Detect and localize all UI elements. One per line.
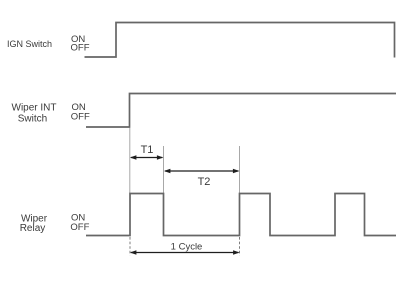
label IGN Switch — [7, 39, 52, 49]
dimension arrow T2 — [164, 169, 240, 174]
svg-text:IGN Switch: IGN Switch — [7, 39, 52, 49]
dimension arrow T1 — [130, 155, 164, 160]
svg-text:T1: T1 — [141, 144, 154, 156]
label T1 — [141, 144, 154, 156]
label Relay — [20, 223, 46, 234]
node guide line at pulse1 fall — [163, 146, 165, 193]
node dashed extension at cycle end — [239, 237, 241, 256]
wire Wiper INT switch waveform — [86, 94, 396, 128]
label 1 Cycle — [171, 242, 203, 253]
label Wiper INT — [12, 103, 57, 114]
svg-text:OFF: OFF — [70, 222, 89, 233]
svg-text:1 Cycle: 1 Cycle — [171, 242, 203, 253]
label OFF (INT) — [71, 111, 90, 122]
label ON (Relay) — [71, 213, 85, 224]
wire Wiper Relay waveform — [86, 194, 396, 236]
svg-text:Switch: Switch — [18, 114, 47, 125]
svg-text:T2: T2 — [198, 176, 211, 188]
wire IGN switch waveform — [85, 23, 395, 58]
svg-text:Wiper INT: Wiper INT — [12, 103, 57, 114]
label T2 — [198, 176, 211, 188]
svg-text:Relay: Relay — [20, 223, 46, 234]
svg-text:OFF: OFF — [71, 111, 90, 122]
svg-text:OFF: OFF — [71, 42, 90, 53]
label OFF (Relay) — [70, 222, 89, 233]
label Wiper — [21, 213, 48, 224]
dimension arrow 1 Cycle — [130, 250, 240, 255]
node dashed extension at cycle start — [129, 237, 131, 256]
label ON (INT) — [72, 102, 86, 113]
node guide line at INT rise — [129, 128, 131, 193]
label Switch — [18, 114, 47, 125]
node guide line at pulse2 rise — [239, 146, 241, 193]
label ON (IGN) — [71, 34, 85, 45]
label OFF (IGN) — [71, 42, 90, 53]
